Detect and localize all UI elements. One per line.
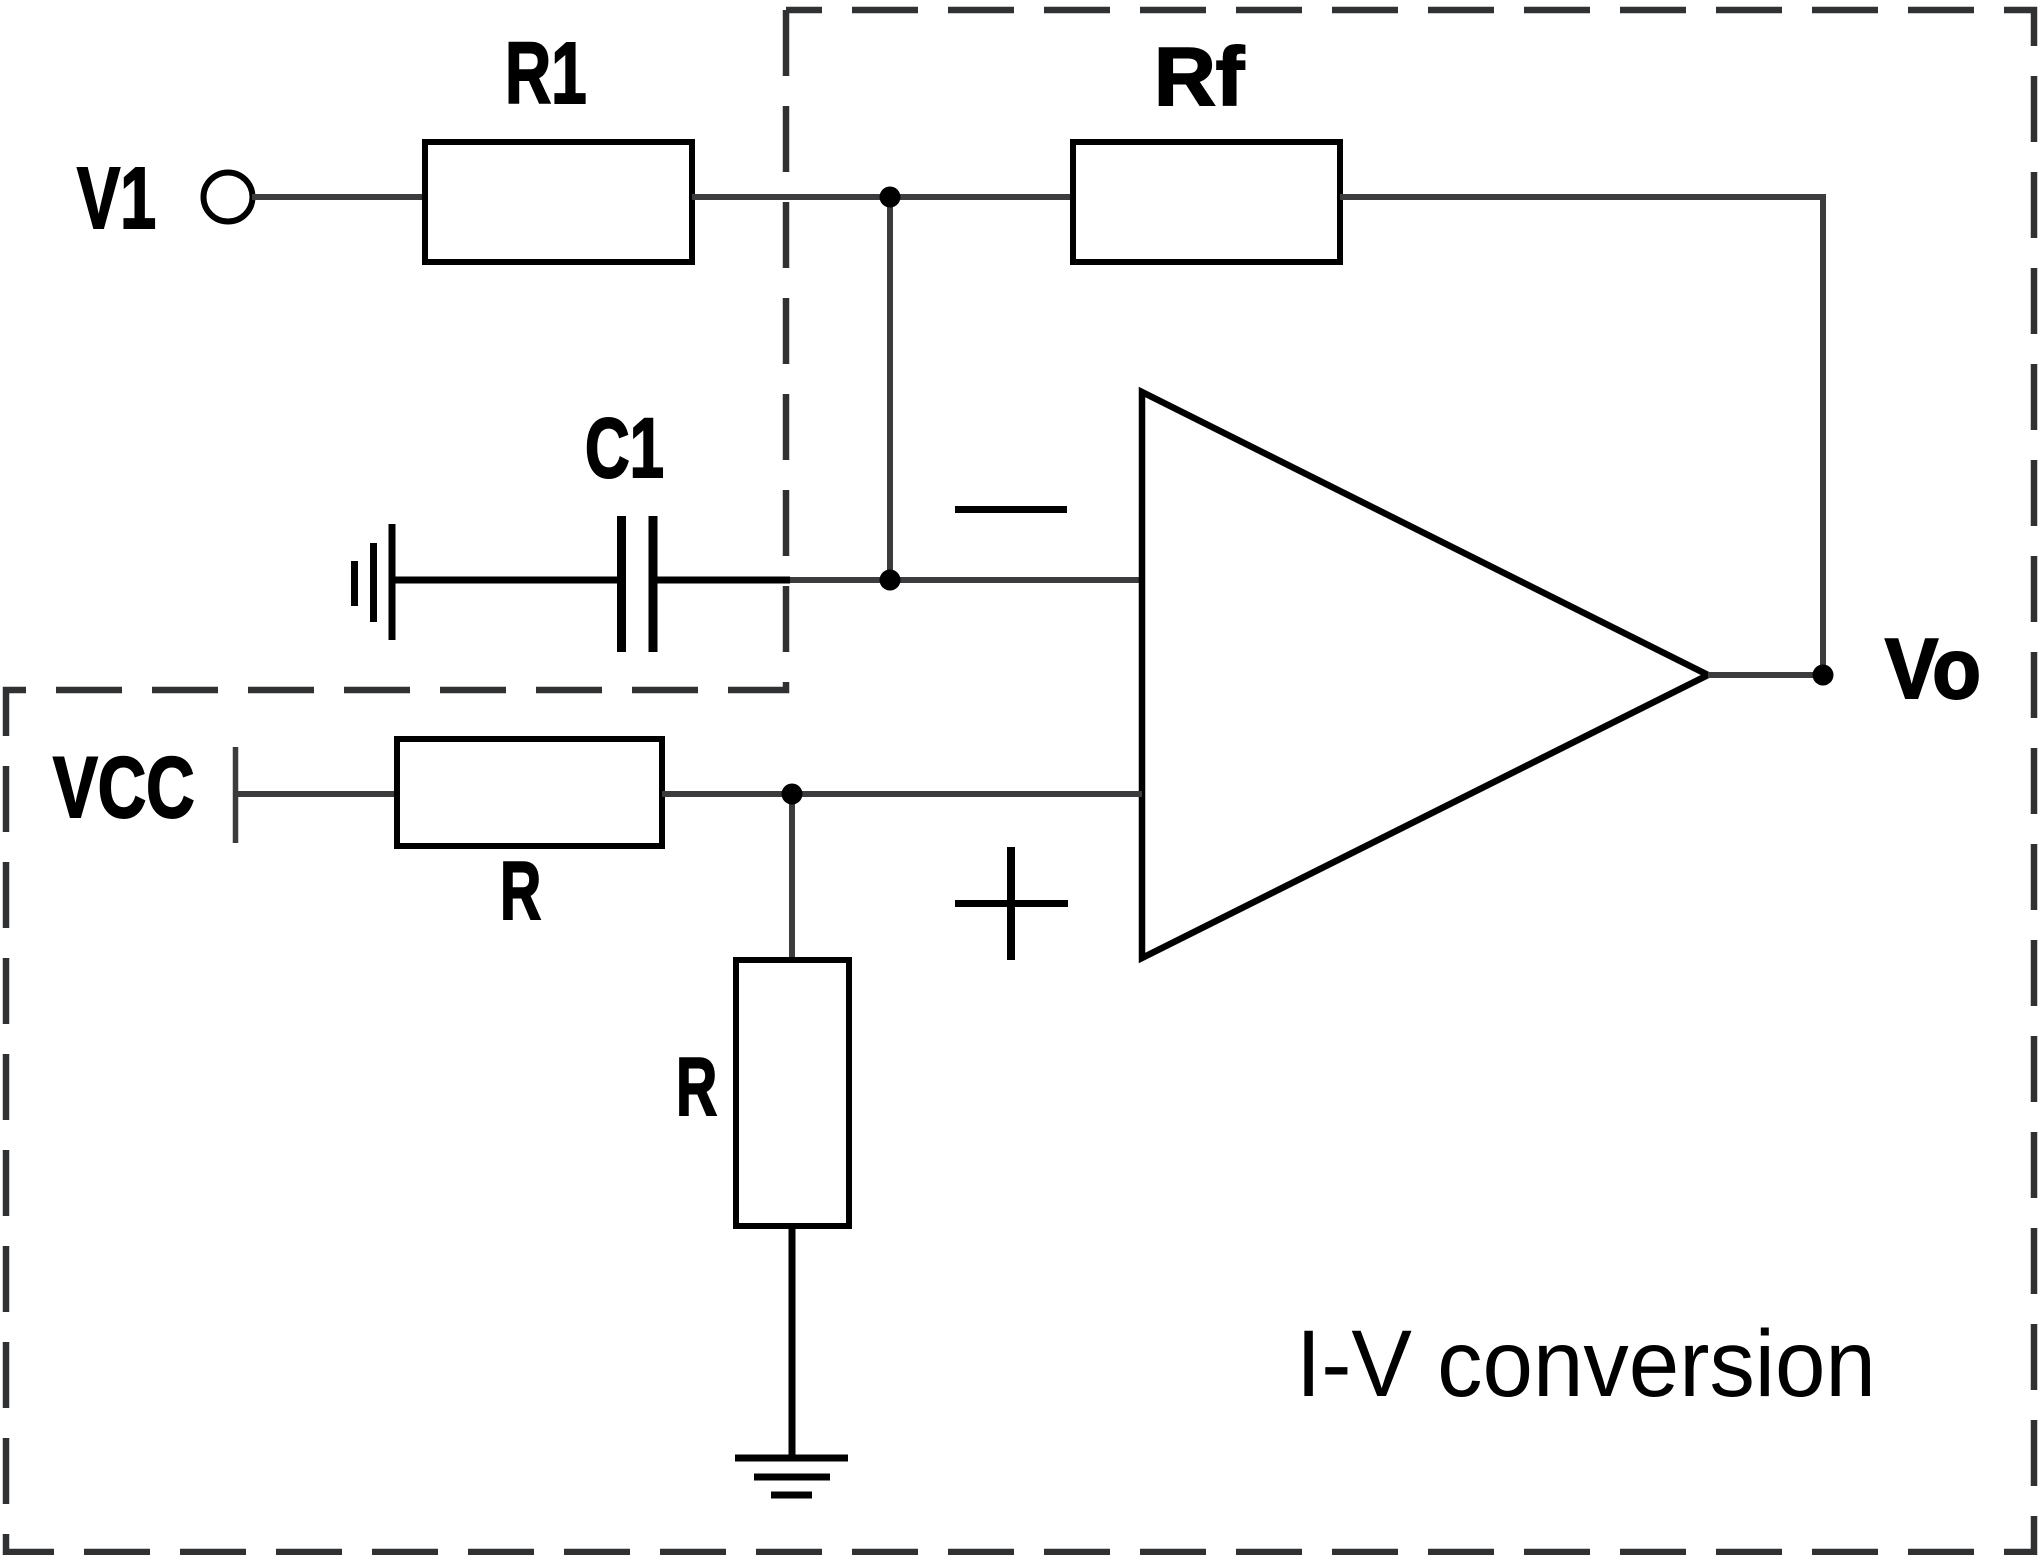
- resistor Rf: [1073, 142, 1340, 262]
- wire R to non-inverting input: [662, 791, 1142, 797]
- resistor R1 label: [505, 24, 587, 124]
- capacitor C1 label: [585, 400, 664, 497]
- node Vo junction dot: [1813, 665, 1834, 686]
- junction node at non-inverting net: [782, 784, 803, 805]
- op-amp inverting input minus sign: [955, 506, 1067, 513]
- resistor R (horizontal): [397, 739, 662, 846]
- wire Rf to feedback corner down to Vo node: [1340, 197, 1823, 675]
- resistor R (vertical) label: [676, 1039, 717, 1135]
- junction node A (inverting net, top): [880, 187, 901, 208]
- capacitor C1: [392, 516, 790, 652]
- wire C1 to inverting input of op-amp: [790, 577, 1142, 583]
- op-amp U1 triangle: [1142, 392, 1708, 958]
- VCC terminal bar: [233, 747, 239, 843]
- ground symbol (earth): [735, 1458, 848, 1495]
- op-amp non-inverting input plus sign: [955, 847, 1068, 960]
- wire node A down to inverting input node: [887, 197, 893, 580]
- wire op-amp output to Vo node: [1708, 672, 1823, 678]
- terminal circle of V1: [204, 173, 253, 222]
- wire R1 to node A (crosses dashed edge): [692, 194, 1073, 200]
- node Vo label: [1885, 621, 1981, 719]
- node V1 label: [77, 149, 156, 249]
- I-V conversion caption: [1296, 1310, 1876, 1419]
- wire resistor R (vertical) to ground: [789, 1226, 796, 1458]
- resistor R1: [425, 142, 692, 262]
- junction node at inverting input: [880, 570, 901, 591]
- wire node down to resistor R (vertical): [789, 794, 795, 960]
- resistor R (vertical): [736, 960, 849, 1226]
- wire VCC to resistor R (horizontal): [236, 791, 398, 797]
- resistor Rf label: [1154, 29, 1244, 125]
- wire V1 terminal to R1: [252, 194, 425, 200]
- resistor R (horizontal) label: [500, 843, 541, 939]
- ground symbol (signal ground, rotated) at C1 left: [355, 524, 393, 640]
- power VCC label: [53, 739, 195, 838]
